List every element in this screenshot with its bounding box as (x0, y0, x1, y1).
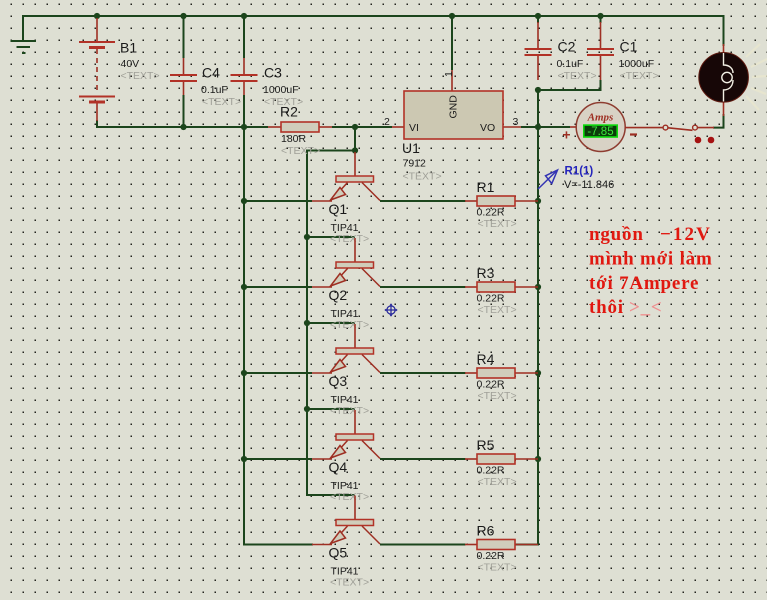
svg-text:<TEXT>: <TEXT> (281, 145, 320, 157)
svg-text:0.22R: 0.22R (477, 379, 505, 391)
svg-text:<TEXT>: <TEXT> (478, 218, 517, 230)
svg-text:<TEXT>: <TEXT> (478, 476, 517, 488)
svg-text:<TEXT>: <TEXT> (478, 304, 517, 316)
resistor R3 (465, 265, 538, 316)
svg-text:0.22R: 0.22R (477, 207, 505, 219)
wire C2 bottom to C1 bottom (538, 80, 601, 90)
svg-text:0.22R: 0.22R (477, 550, 505, 562)
svg-text:<TEXT>: <TEXT> (403, 171, 442, 183)
svg-text:R4: R4 (477, 351, 495, 367)
svg-text:7912: 7912 (403, 158, 427, 170)
svg-text:<TEXT>: <TEXT> (478, 390, 517, 402)
wire base branch Q2 (307, 236, 355, 238)
svg-text:VO: VO (480, 122, 495, 134)
wire C4 bottom stub (183, 95, 185, 127)
svg-text:180R: 180R (281, 133, 307, 145)
svg-text:R3: R3 (477, 265, 495, 281)
svg-text:0.22R: 0.22R (477, 465, 505, 477)
wire C1 top stub (600, 16, 602, 23)
origin marker (384, 303, 397, 316)
probe R1(1) (538, 166, 614, 192)
transistor Q1 TIP41 (244, 152, 466, 245)
svg-text:Amps: Amps (587, 112, 614, 124)
svg-text:<TEXT>: <TEXT> (558, 70, 597, 82)
svg-text:VI: VI (409, 122, 419, 134)
wire top rail from battery to lamp drop (97, 16, 724, 46)
wire C4 top stub (183, 16, 185, 58)
svg-text:>_<: >_< (629, 297, 663, 318)
wire switch to lamp corner (713, 114, 724, 128)
lamp glow rays (746, 44, 767, 110)
svg-text:<TEXT>: <TEXT> (620, 70, 659, 82)
switch (625, 125, 714, 143)
wire base branch Q4 (307, 408, 355, 410)
lamp (699, 44, 749, 116)
svg-text:R6: R6 (477, 523, 495, 539)
svg-text:C1: C1 (620, 39, 638, 55)
capacitor C2 (525, 22, 597, 82)
svg-text:R5: R5 (477, 437, 495, 453)
svg-text:Q3: Q3 (329, 373, 348, 389)
transistor Q5 TIP41 (244, 496, 466, 589)
svg-text:C3: C3 (264, 65, 282, 81)
svg-text:<TEXT>: <TEXT> (478, 562, 517, 574)
wire base feed drop (354, 127, 356, 151)
svg-text:-7.85: -7.85 (587, 126, 613, 138)
svg-text:R1(1): R1(1) (565, 166, 594, 178)
svg-text:<TEXT>: <TEXT> (202, 96, 241, 108)
svg-text:−12V: −12V (660, 224, 712, 245)
svg-text:V=-11.846: V=-11.846 (564, 179, 614, 191)
svg-text:2: 2 (384, 116, 390, 128)
battery B1 (79, 18, 160, 121)
wire battery bottom to R2 (97, 120, 268, 127)
wire ammeter feed (538, 126, 570, 128)
transistor Q2 TIP41 (244, 238, 466, 331)
wire C2 top stub (537, 16, 539, 23)
ammeter LCD display (583, 124, 618, 138)
resistor R2 (268, 104, 332, 158)
svg-text:Q1: Q1 (329, 201, 348, 217)
switch actuator dot left (695, 137, 702, 144)
transistor Q3 TIP41 (244, 324, 466, 417)
switch actuator dot right (708, 137, 715, 144)
svg-text:+: + (562, 127, 570, 143)
wire R2 output to U1 VI (332, 126, 392, 128)
svg-text:<TEXT>: <TEXT> (330, 577, 369, 589)
capacitor C4 (170, 58, 241, 108)
svg-text:nguồn: nguồn (589, 224, 644, 245)
wire U1 VO to right rail (521, 126, 538, 128)
svg-text:3: 3 (513, 116, 519, 128)
capacitor C3 (231, 58, 304, 108)
resistor R4 (465, 351, 538, 402)
svg-text:0.22R: 0.22R (477, 293, 505, 305)
wire base rail (307, 151, 355, 496)
resistor R6 (465, 523, 538, 574)
svg-text:<TEXT>: <TEXT> (330, 233, 369, 245)
svg-text:C4: C4 (202, 65, 220, 81)
ammeter Amps (562, 103, 637, 152)
svg-text:0.1uF: 0.1uF (201, 84, 228, 96)
svg-text:Q5: Q5 (329, 545, 348, 561)
svg-text:1: 1 (443, 71, 455, 77)
svg-text:R2: R2 (280, 104, 298, 120)
svg-text:<TEXT>: <TEXT> (121, 70, 160, 82)
resistor R1 (465, 179, 538, 230)
svg-text:thôi: thôi (589, 297, 624, 318)
ground (11, 41, 37, 53)
svg-text:R1: R1 (477, 179, 495, 195)
wire U1 GND pin stub (451, 16, 453, 70)
op-amp U1 7912 regulator (384, 70, 521, 183)
svg-text:C2: C2 (558, 39, 576, 55)
transistor Q4 TIP41 (244, 410, 466, 503)
svg-text:<TEXT>: <TEXT> (330, 319, 369, 331)
svg-text:Q2: Q2 (329, 287, 348, 303)
switch lever (668, 128, 693, 131)
svg-text:mình mới làm: mình mới làm (589, 249, 713, 270)
ammeter minus terminal label (630, 133, 637, 135)
annotation red text (589, 224, 713, 318)
svg-text:1000uF: 1000uF (619, 58, 655, 70)
capacitor C1 (587, 22, 659, 82)
svg-text:<TEXT>: <TEXT> (330, 491, 369, 503)
wire right rail (515, 90, 538, 545)
lamp filament (722, 53, 733, 102)
svg-text:<TEXT>: <TEXT> (330, 405, 369, 417)
resistor R5 (465, 437, 538, 488)
svg-text:0.1uF: 0.1uF (557, 58, 584, 70)
wire left emitter rail (244, 127, 313, 545)
wire ground to battery top rail (23, 16, 97, 41)
svg-text:40V: 40V (121, 58, 140, 70)
svg-text:B1: B1 (120, 40, 137, 56)
wire C3 top stub (243, 16, 245, 58)
svg-text:Q4: Q4 (329, 459, 348, 475)
svg-text:GND: GND (448, 95, 460, 119)
svg-text:U1: U1 (402, 140, 420, 156)
wire C3 bottom stub (243, 95, 245, 127)
svg-text:tới 7Ampere: tới 7Ampere (589, 273, 699, 294)
svg-text:1000uF: 1000uF (263, 84, 299, 96)
wire base branch Q3 (307, 322, 355, 324)
